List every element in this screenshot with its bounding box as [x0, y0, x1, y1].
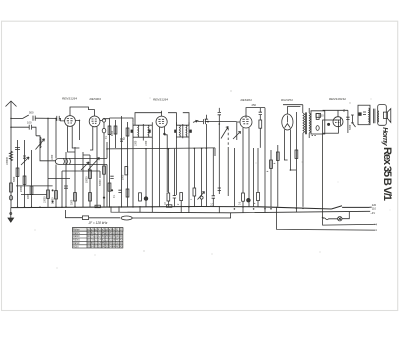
svg-text:1000: 1000	[136, 140, 138, 146]
svg-text:110: 110	[372, 206, 377, 210]
svg-text:100000: 100000	[7, 157, 9, 165]
svg-text:5000: 5000	[122, 174, 124, 180]
svg-text:50000: 50000	[53, 197, 55, 204]
svg-text:~4V: ~4V	[370, 211, 375, 215]
svg-text:REN904: REN904	[90, 97, 102, 101]
svg-text:Rex 35 B V/1: Rex 35 B V/1	[381, 147, 393, 201]
svg-text:1000: 1000	[52, 154, 54, 160]
svg-text:5000: 5000	[350, 124, 352, 130]
svg-text:RGN354: RGN354	[281, 98, 293, 102]
svg-text:50000: 50000	[87, 176, 89, 183]
svg-text:500: 500	[29, 111, 34, 115]
svg-text:JF = 128 kHz: JF = 128 kHz	[89, 221, 108, 225]
svg-text:20000: 20000	[21, 185, 23, 192]
svg-text:RENS1823d: RENS1823d	[329, 97, 346, 101]
svg-text:5000: 5000	[14, 176, 16, 182]
svg-text:50: 50	[321, 114, 324, 118]
svg-text:10000: 10000	[45, 196, 47, 203]
svg-text:RES964: RES964	[241, 98, 253, 102]
svg-text:3000: 3000	[72, 199, 74, 205]
svg-text:250: 250	[252, 103, 257, 107]
svg-text:3000: 3000	[28, 193, 30, 199]
svg-text:RGN: RGN	[73, 245, 79, 248]
svg-text:100: 100	[27, 121, 32, 125]
svg-text:50000: 50000	[100, 179, 102, 186]
svg-text:RENS1264: RENS1264	[62, 96, 77, 100]
svg-text:Horny: Horny	[381, 127, 388, 147]
svg-text:RENS1264: RENS1264	[153, 97, 168, 101]
svg-text:4000: 4000	[112, 130, 114, 136]
svg-text:1000: 1000	[146, 140, 148, 146]
